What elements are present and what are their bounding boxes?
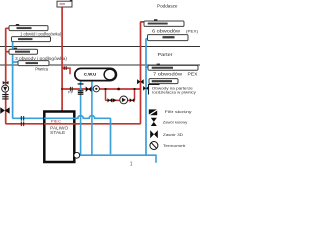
pump on main line (93, 86, 99, 92)
redraw blue line over boiler (44, 117, 77, 119)
pipe blue tee to manifold B2 (13, 61, 19, 63)
pump on bypass (120, 96, 128, 104)
legend icon thermometer (150, 142, 158, 150)
boiler outlet circle (74, 152, 80, 158)
svg-text:Piwnica: Piwnica (35, 67, 48, 72)
manifold P1 box parter (148, 64, 198, 71)
3D valve X on left riser (0, 107, 9, 113)
legend frame corner (149, 84, 160, 94)
svg-text:Poddasze: Poddasze (157, 3, 178, 8)
svg-text:Parter: Parter (158, 52, 174, 57)
3D valve X on right red riser (137, 79, 144, 84)
svg-text:Termometr: Termometr (163, 144, 186, 148)
floor line parter/piwnica (0, 64, 200, 66)
svg-text:rozdzielacza w piwnicy: rozdzielacza w piwnicy (152, 91, 196, 95)
svg-text:Zawór 3D: Zawór 3D (163, 133, 183, 137)
manifold A2 box (12, 37, 51, 42)
redraw red line over boiler (44, 123, 77, 125)
svg-text:STAŁE: STAŁE (50, 130, 65, 135)
junction node bypass left (104, 88, 106, 90)
junction node riser main (61, 88, 63, 90)
pipe red tee to manifold B1 (6, 51, 10, 53)
pipe blue tank stub 1 with hop (80, 81, 82, 155)
manifold P2 box parter (149, 79, 178, 84)
valve bowtie on left riser (3, 81, 9, 84)
double tick on main line (70, 87, 72, 91)
pipe blue left riser to boiler (12, 39, 111, 154)
check valve bypass (113, 98, 117, 102)
pipe red main line (62, 88, 140, 90)
check valve ticks on tank branch (64, 66, 66, 70)
valve bowtie on main line (86, 86, 92, 92)
pipe red left riser with elbows to boiler (6, 22, 145, 124)
junction node tank drop (117, 88, 120, 91)
junction node bypass right (133, 88, 135, 90)
svg-text:C.W.U: C.W.U (84, 72, 97, 77)
valve bowtie bypass right (130, 98, 135, 102)
svg-text:Zawór kulowy: Zawór kulowy (163, 121, 188, 125)
valve bowtie bypass left (108, 98, 113, 102)
legend icon 3D valve (150, 130, 158, 138)
manifold A1 box (9, 24, 48, 31)
svg-text:6 obwodów(PEX): 6 obwodów(PEX) (152, 29, 199, 34)
union bars on blue tank stub (78, 90, 84, 95)
boiler (44, 112, 74, 163)
pipe red center riser (61, 7, 63, 111)
radiator top (57, 0, 72, 7)
svg-text:1 obwód i podłogówka): 1 obwód i podłogówka) (20, 32, 62, 37)
svg-text:PP: PP (68, 91, 74, 95)
pump on left riser (2, 85, 9, 92)
legend icon ball valve (151, 118, 157, 126)
pipe blue tank stub 2 with hop (91, 81, 93, 155)
svg-text:1: 1 (130, 161, 133, 166)
manifold B1 box (9, 48, 38, 55)
pipe blue right riser (146, 39, 148, 156)
pipe blue tee to manifold P1 (146, 66, 149, 68)
union bars on left riser (2, 94, 8, 100)
floor line attic/first floor (0, 46, 200, 48)
union ticks on blue horizontal (21, 116, 23, 121)
pipe red pump bypass loop (106, 89, 135, 100)
3D valve X on right blue riser (143, 86, 149, 91)
pipe blue bottom return line (77, 155, 156, 163)
manifold B2 box (18, 61, 49, 66)
manifold T2 box attic (148, 35, 189, 41)
tank CWU (75, 68, 117, 80)
svg-text:7 obwodówPEX: 7 obwodówPEX (153, 71, 198, 76)
legend icon filter (149, 109, 158, 115)
union ticks on red horizontal (21, 122, 23, 127)
svg-text:PIEC: PIEC (51, 119, 62, 124)
manifold T1 box attic (144, 19, 184, 26)
flange on tank stub (78, 83, 84, 84)
svg-text:Filtr skośny: Filtr skośny (165, 110, 192, 114)
pipe red tank inlet branch (63, 68, 70, 74)
